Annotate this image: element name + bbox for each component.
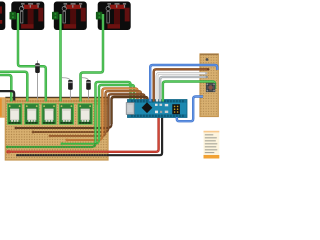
Arduino Nano U1 (126, 100, 187, 118)
diode D2 (62, 78, 73, 100)
icsp header (172, 104, 180, 114)
wire black W3 from left edge (0, 91, 14, 100)
relay K5 (78, 104, 92, 125)
trace T4 orange on PCB1 (67, 136, 102, 140)
wire grey W-J nano to PCB2 (160, 77, 206, 102)
wire green W-A bundle (bus to nano pin) (96, 82, 131, 143)
trace T1 dark brown on PCB1 (16, 124, 112, 128)
relay K2 (25, 104, 39, 125)
perfboard PCB2 (right) (200, 54, 218, 117)
wire blue W-G nano to PCB2 button (150, 65, 217, 102)
trace T3 brown on PCB1 (50, 132, 106, 136)
sensor module M0 (cut off at left) (0, 2, 5, 31)
relay K3 (42, 104, 56, 125)
sensor module M2 (52, 2, 87, 31)
trace end pads (6, 127, 69, 149)
small board fragment at left edge (0, 97, 5, 117)
wire green W5 sensor2 to PCB1 (59, 14, 62, 102)
perfboard PCB1 (main board bottom-left) (5, 97, 108, 160)
sensor module M1 (10, 2, 45, 31)
wire green W6 sensor3 to PCB1 (81, 14, 104, 102)
relay K4 (59, 104, 73, 125)
push button S1 on PCB2 (205, 58, 215, 92)
wire red from PCB1 to nano 5V (7, 116, 159, 152)
wire orange W-C bundle (102, 88, 137, 136)
diode D1 (35, 61, 40, 100)
trace T5 short green on PCB1 (62, 140, 99, 144)
trace T2 brown on PCB1 (33, 128, 109, 132)
wire green W-B bundle (99, 85, 134, 140)
diode D3 (82, 78, 91, 100)
wire very dark brown W-F bundle (112, 97, 148, 124)
wire blue W-L nano gnd to PCB2 (177, 97, 203, 122)
pad row 2 on PCB1 (7, 103, 109, 105)
wire green W1 from edge module (0, 72, 27, 102)
usb connector (126, 103, 134, 115)
wire green W4 sensor1 to PCB1 (18, 13, 46, 102)
wire dark brown W-E bundle (109, 94, 145, 128)
wire green W2 from edge module (0, 75, 11, 102)
wire brown W-D bundle (106, 91, 142, 132)
small parts (155, 104, 158, 106)
red jumper end on PCB1 (6, 150, 10, 153)
wire white W-I nano to PCB2 (157, 73, 206, 101)
mcu chip (142, 102, 153, 113)
sensor module M3 (96, 2, 131, 31)
hole dots over traces (7, 127, 107, 158)
wire black from PCB1 to nano GND (16, 116, 162, 155)
relay K1 (8, 104, 22, 125)
trace T6 long green bus on PCB1 (7, 143, 96, 147)
wire green W-K nano to PCB2 (163, 82, 215, 102)
note label bottom-right (204, 131, 220, 159)
wire brown W-H nano to PCB2 (154, 69, 208, 101)
